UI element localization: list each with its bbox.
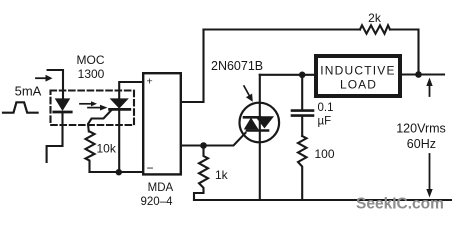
svg-text:SeekIC.com: SeekIC.com	[356, 196, 444, 213]
input arrow	[36, 75, 53, 82]
junction: right node	[415, 71, 422, 78]
svg-text:MDA: MDA	[148, 182, 174, 194]
label MDA 920-4	[141, 182, 174, 208]
AC source arrows	[426, 78, 432, 198]
wire input top to LED anode	[48, 70, 63, 98]
wire LED cathode to input bottom terminal	[47, 113, 63, 162]
svg-text:10k: 10k	[97, 142, 117, 156]
svg-text:µF: µF	[318, 116, 332, 128]
wire 2k to right node	[390, 30, 419, 75]
capacitor 0.1uF	[292, 75, 313, 136]
svg-text:INDUCTIVE: INDUCTIVE	[320, 64, 395, 78]
top rail wire	[204, 28, 361, 30]
triac 2N6071B	[239, 103, 279, 143]
wire MDA+ output to top rail	[182, 30, 204, 103]
label 0.1 µF	[318, 102, 334, 128]
optocoupler MOC1300 dashed box	[51, 91, 135, 126]
resistor 2k	[360, 25, 390, 33]
label 120Vrms 60Hz	[396, 122, 446, 152]
svg-text:100: 100	[315, 147, 335, 161]
wire load to AC line (top)	[400, 73, 444, 75]
svg-text:0.1: 0.1	[318, 102, 334, 114]
junction: gate node	[200, 142, 207, 149]
wire detector cathode down	[118, 111, 120, 173]
wire gate node to triac gate	[204, 133, 246, 146]
svg-text:LOAD: LOAD	[340, 78, 377, 92]
svg-text:2k: 2k	[368, 11, 382, 25]
svg-text:60Hz: 60Hz	[407, 137, 436, 151]
LED D1 (MOC1300 emitter)	[54, 98, 71, 112]
resistor 1k	[194, 146, 208, 201]
svg-text:5mA: 5mA	[15, 84, 42, 99]
junction: snubber node	[299, 72, 306, 79]
wire triac top to load	[260, 74, 316, 76]
junction: detector cathode / 10k node	[116, 169, 122, 175]
svg-text:1k: 1k	[215, 168, 229, 182]
svg-text:1300: 1300	[78, 67, 105, 81]
bridge rectifier MDA 920-4	[143, 73, 181, 175]
label arrow to triac	[244, 86, 253, 102]
label MOC 1300	[77, 53, 105, 81]
wire 10k bottom to MDA left (bottom)	[90, 171, 143, 173]
wire triac main vertical (MT2 top to MT1 bottom rail)	[259, 75, 261, 200]
bottom rail wire	[194, 199, 451, 201]
svg-text:MOC: MOC	[77, 53, 105, 67]
svg-text:920–4: 920–4	[141, 196, 174, 208]
gate wire from detector to 10k	[88, 111, 111, 132]
light arrows (LED to detector)	[80, 101, 108, 110]
svg-text:2N6071B: 2N6071B	[211, 59, 263, 73]
svg-text:−: −	[147, 161, 154, 175]
svg-text:+: +	[147, 76, 153, 88]
wire detector anode to MDA + input	[119, 82, 142, 98]
inductive load box	[316, 56, 400, 96]
wire MDA- output to gate node	[182, 144, 204, 146]
photo-SCR detector (MOC1300)	[110, 98, 130, 109]
svg-text:120Vrms: 120Vrms	[396, 122, 446, 136]
resistor 100	[298, 136, 307, 200]
input pulse symbol	[3, 102, 38, 112]
resistor 10k	[86, 132, 95, 173]
